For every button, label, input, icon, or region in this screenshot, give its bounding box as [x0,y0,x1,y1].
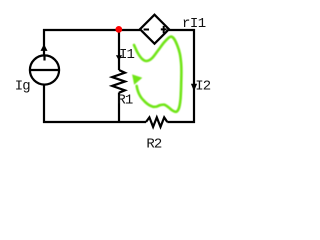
mesh arrowhead (green) [132,74,142,84]
arrow I2 (down) [191,84,197,91]
wire right branch [193,29,195,123]
resistor R2 (horizontal zigzag) [146,117,167,127]
wire diamond to top-right corner [169,29,195,31]
wire bottom right segment [167,121,195,123]
mesh current loop (green freehand) [134,36,181,111]
wire top-left: node A to diamond [43,29,140,31]
wire middle branch upper [118,30,120,70]
wire left branch lower [43,85,45,124]
wire middle branch lower [118,93,120,124]
dependent source rI1 (diamond) [140,15,169,44]
svg-text:rI1: rI1 [182,16,206,32]
node A (red junction dot) [115,26,122,33]
wire left branch upper [43,29,45,56]
wire bottom left segment [43,121,146,123]
svg-text:Ig: Ig [15,79,31,95]
svg-text:I1: I1 [119,47,135,63]
plus sign [161,26,167,33]
arrow I1 (down) [116,55,122,60]
current source Ig (circle with bar) [30,55,59,84]
resistor R1 (vertical zigzag) [112,70,125,93]
Ig arrow up [41,44,48,51]
svg-text:R1: R1 [117,93,133,109]
svg-text:R2: R2 [146,137,162,153]
svg-text:I2: I2 [195,79,211,95]
minus sign [144,29,149,31]
